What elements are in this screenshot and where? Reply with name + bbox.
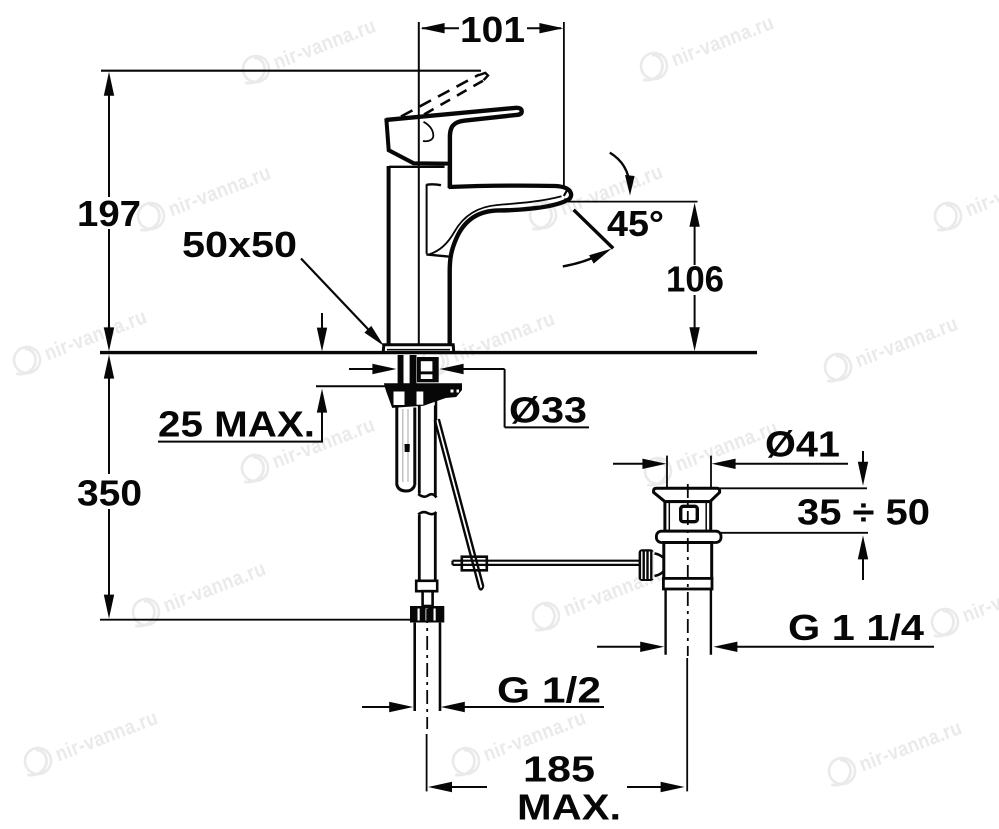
top reference line (handle max height)	[101, 70, 481, 72]
dimension 101: extension line left / faucet centerline	[418, 22, 420, 353]
faucet spout top edge + tip cap	[449, 186, 572, 201]
faucet handle inner thin curve	[423, 122, 433, 141]
dimension O41: arrows	[613, 463, 644, 465]
dimension O41: extension lines	[666, 456, 668, 489]
svg-text:Ø33: Ø33	[509, 390, 587, 431]
pop-up rod vertical stub	[435, 387, 438, 420]
shank nut	[417, 357, 439, 382]
dimension 101: extension line right	[563, 22, 565, 186]
svg-text:MAX.: MAX.	[517, 787, 621, 828]
faucet spout thin inner curve	[430, 196, 562, 254]
dimension 101: dim line + arrows	[422, 27, 459, 29]
dimension 185: dim line + arrows	[428, 782, 452, 792]
supply pipe hex nut	[410, 606, 444, 623]
svg-text:Ø41: Ø41	[765, 423, 840, 464]
faucet handle left edge + chamfer + base bottom	[386, 118, 448, 163]
dimension 350: dim line + arrows	[108, 377, 110, 474]
dimension O33: arrows at shank	[349, 368, 374, 370]
faucet handle raised ghost: tip cap	[479, 73, 489, 80]
supply pipe lower segment	[413, 623, 416, 711]
dimension 106: dim line + arrows	[694, 225, 696, 265]
svg-text:G 1 1/4: G 1 1/4	[788, 607, 924, 648]
drain knob bulb	[655, 553, 667, 576]
dimension G 1/2: dim line + arrows	[362, 706, 391, 708]
svg-text:25 MAX.: 25 MAX.	[158, 404, 315, 445]
shank bar right	[410, 355, 417, 385]
faucet spout root block	[426, 184, 428, 254]
drain knurled knob	[639, 549, 654, 581]
label 50x50: leader line + arrow	[301, 259, 375, 337]
svg-text:350: 350	[77, 473, 142, 514]
svg-text:50x50: 50x50	[182, 224, 297, 265]
drain upper reference line (35-50 top)	[720, 487, 867, 489]
pop-up rod diagonal	[435, 420, 480, 588]
dimension 45deg: slash line	[574, 210, 614, 249]
faucet column right edge upper segment	[448, 167, 452, 188]
dimension 35-50: upper arrow	[862, 451, 864, 463]
faucet lever handle (solid)	[386, 108, 522, 188]
svg-text:101: 101	[460, 9, 525, 50]
drain upper body	[665, 502, 711, 532]
drain centerline	[687, 484, 689, 656]
dimension 35-50: lower arrow	[858, 535, 868, 559]
mounting bracket	[385, 384, 462, 408]
dimension G 1 1/4: dim line + arrows	[597, 646, 642, 648]
supply pipe narrow section	[423, 591, 433, 606]
drain mid flange	[656, 531, 721, 542]
svg-text:106: 106	[666, 259, 724, 300]
faucet column left edge	[387, 166, 391, 345]
svg-text:185: 185	[523, 748, 595, 789]
dimension 197: dim line + arrows	[108, 94, 110, 197]
faucet base flange	[383, 345, 454, 353]
svg-text:G 1/2: G 1/2	[497, 670, 601, 711]
spout height reference line	[568, 201, 698, 203]
dimension 25 MAX: reference line under deck	[316, 385, 392, 387]
drain body square hole	[681, 506, 698, 521]
faucet spout tip inner slash	[564, 188, 569, 196]
drain lower reference line (35-50 bottom)	[721, 532, 868, 534]
lower reference line (350 bottom)	[100, 619, 411, 621]
ghost dashes	[401, 75, 479, 117]
flexible hose below bracket	[395, 408, 398, 486]
svg-text:35 ÷ 50: 35 ÷ 50	[797, 492, 930, 533]
faucet handle base seam line	[389, 166, 445, 168]
drain band nut	[663, 578, 712, 589]
drain tailpipe	[664, 589, 666, 655]
dimension 185: extension line left (supply centerline)	[426, 734, 428, 791]
svg-text:45°: 45°	[607, 203, 664, 244]
dimension O33: leader elbow + underline	[504, 369, 506, 427]
linkage clamp block	[462, 557, 487, 571]
supply pipe upper segment with break	[418, 406, 421, 494]
drain top flange	[654, 488, 720, 501]
drain lower body	[664, 543, 712, 579]
dimension 25 MAX: lower arrow + leader underline	[317, 389, 327, 413]
dimension 45deg: upper arc arrow	[610, 153, 630, 186]
dimension 45deg: lower arc arrow	[563, 253, 603, 267]
pop-up linkage horizontal rod	[453, 560, 641, 562]
deck / mounting surface line	[100, 351, 757, 354]
shank bar left	[398, 355, 404, 385]
svg-text:197: 197	[77, 193, 141, 234]
supply pipe sleeve	[416, 581, 437, 591]
supply pipe centerline	[426, 609, 428, 729]
dimension 25 MAX: upper arrow	[321, 313, 323, 329]
faucet spout heavy under-curve merging into column right edge	[450, 201, 566, 345]
